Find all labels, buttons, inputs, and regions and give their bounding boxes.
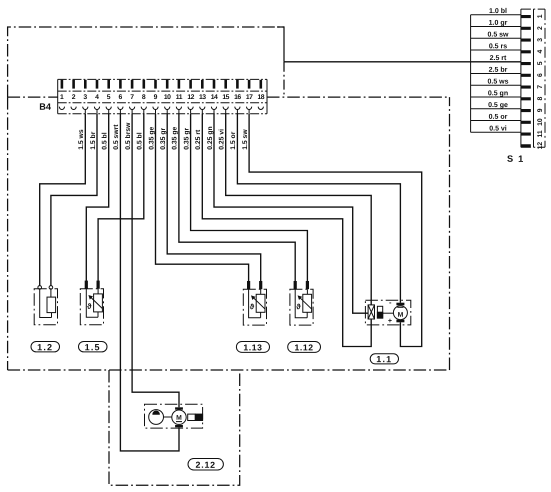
terminal S1:2	[521, 26, 544, 30]
svg-text:6: 6	[537, 73, 544, 77]
harness outer box (top)	[8, 27, 284, 97]
connector B4 pin 15 (contact, number, crimp fork)	[222, 80, 229, 114]
terminal S1:8	[521, 97, 544, 101]
wire 0.5 vi to S1:11	[471, 131, 521, 133]
designator oval 1.5	[79, 342, 108, 353]
terminal S1:7	[521, 85, 544, 89]
svg-text:0.5 vi: 0.5 vi	[489, 124, 507, 132]
wire 1.5 sw from B4 pin 17 to 1.1 motor	[249, 114, 422, 347]
terminal S1:3	[521, 38, 544, 42]
svg-text:2.5 br: 2.5 br	[489, 66, 508, 74]
svg-text:3: 3	[83, 94, 87, 101]
svg-text:1.5 or: 1.5 or	[230, 131, 237, 149]
lamp (indicator) in 1.1	[368, 305, 374, 319]
harness bottom box	[109, 370, 240, 485]
svg-text:1.13: 1.13	[243, 342, 262, 352]
wire 1.5 ws from B4 pin 3 to 1.2	[40, 114, 86, 286]
component 1.13 (temperature sensor)	[243, 281, 266, 325]
component 1.12 (temperature sensor)	[290, 281, 313, 325]
motor M in 2.12	[172, 407, 186, 427]
connector B4 pin 17 (contact, number, crimp fork)	[246, 80, 253, 114]
component 2.12 enclosure	[145, 404, 203, 428]
designator oval 1.13	[236, 342, 269, 353]
wire 0.5 brsw from B4 pin 7 to 2.12	[132, 114, 179, 408]
svg-text:0.5 gn: 0.5 gn	[488, 90, 508, 97]
svg-text:10: 10	[537, 118, 544, 126]
svg-text:1.2: 1.2	[37, 342, 53, 352]
terminal S1:5	[521, 61, 544, 65]
connector B4 pin 8 (contact, number, crimp fork)	[141, 80, 146, 114]
wire 0.25 gn from B4 pin 14 to 1.1 lamp	[214, 114, 368, 314]
plug contact bar in 1.1	[377, 306, 393, 318]
svg-text:0.5 brsw: 0.5 brsw	[125, 122, 132, 150]
svg-text:B4: B4	[39, 102, 52, 112]
svg-text:5: 5	[107, 94, 111, 101]
wire 0.5 or to S1:10	[471, 120, 521, 122]
svg-text:11: 11	[176, 94, 183, 101]
svg-text:2.12: 2.12	[196, 460, 216, 470]
svg-text:0.35 gr: 0.35 gr	[160, 128, 167, 150]
wire 1.0 gr to S1:2	[471, 26, 521, 28]
svg-text:0.25 gn: 0.25 gn	[207, 126, 214, 149]
connector B4 body	[58, 79, 267, 113]
connector B4 pin 2 (contact, number, crimp fork)	[71, 80, 76, 110]
component 1.2 (heater resistor)	[34, 286, 57, 325]
svg-text:16: 16	[234, 94, 241, 101]
svg-text:1.5 sw: 1.5 sw	[242, 129, 249, 150]
designator oval 1.2	[31, 342, 60, 353]
svg-text:9: 9	[537, 108, 544, 112]
terminal S1:10	[521, 118, 544, 126]
svg-text:ϑ: ϑ	[250, 302, 255, 311]
svg-text:ϑ: ϑ	[296, 302, 301, 311]
component 1.1 enclosure	[365, 300, 410, 325]
wire 0.35 ge from B4 pin 9 to 1.13	[156, 114, 249, 281]
terminal S1:1	[521, 14, 544, 18]
wire 0.25 rt from B4 pin 13 to 1.1 lamp	[202, 114, 371, 347]
svg-text:1.0 bl: 1.0 bl	[489, 7, 507, 15]
terminal S1:12	[521, 142, 544, 150]
svg-text:1.5 br: 1.5 br	[90, 131, 97, 149]
connector B4 pin 4 (contact, number, crimp fork)	[94, 80, 99, 114]
svg-text:0.5 rs: 0.5 rs	[489, 43, 507, 50]
svg-text:0.25 vi: 0.25 vi	[219, 129, 226, 150]
wire 0.5 swrt from B4 pin 6 to 2.12	[120, 114, 179, 451]
svg-text:0.5 swrt: 0.5 swrt	[113, 124, 120, 150]
svg-text:9: 9	[154, 94, 158, 101]
svg-text:13: 13	[199, 94, 206, 101]
harness main box	[8, 97, 450, 370]
connector B4 pin 11 (contact, number, crimp fork)	[176, 80, 183, 114]
svg-text:1.1: 1.1	[376, 354, 392, 364]
motor M in 1.1	[393, 303, 407, 323]
svg-text:2.5 rt: 2.5 rt	[490, 55, 507, 62]
connector B4 pin 13 (contact, number, crimp fork)	[199, 80, 206, 114]
terminal strip S1 body	[521, 9, 545, 147]
svg-text:0.5 ws: 0.5 ws	[487, 78, 508, 85]
svg-text:0.5 ge: 0.5 ge	[488, 102, 508, 109]
terminal S1:11	[521, 130, 544, 137]
svg-text:0.35 gr: 0.35 gr	[183, 128, 190, 150]
pump symbol in 2.12	[149, 410, 172, 425]
wire 0.35 gr from B4 pin 10 to 1.13	[167, 114, 261, 281]
svg-text:6: 6	[119, 94, 123, 101]
svg-text:15: 15	[222, 94, 229, 101]
connector B4 pin 18 (contact, number, crimp fork)	[258, 80, 265, 110]
wire 0.5 ge to S1:9	[471, 108, 521, 110]
designator oval 1.1	[370, 354, 398, 364]
wire 0.35 ge from B4 pin 11 to 1.12	[179, 114, 295, 281]
connector B4 pin 1 (contact, number, crimp fork)	[59, 80, 64, 110]
connector B4 pin 7 (contact, number, crimp fork)	[130, 80, 135, 114]
svg-text:-: -	[389, 298, 392, 307]
wire 1.0 bl to S1:1	[471, 14, 521, 16]
terminal S1:6	[521, 73, 544, 77]
wire 2.5 br to S1:6	[471, 73, 521, 75]
svg-text:0.5 or: 0.5 or	[489, 114, 508, 121]
svg-text:17: 17	[246, 94, 253, 101]
wire 0.25 vi from B4 pin 15 to 1.1 lamp	[226, 114, 372, 305]
svg-text:0.5 sw: 0.5 sw	[487, 31, 509, 38]
wire 0.5 ws to S1:7	[471, 84, 521, 86]
svg-text:3: 3	[537, 38, 544, 42]
svg-text:M: M	[176, 415, 182, 422]
svg-text:0.5 bl: 0.5 bl	[137, 132, 144, 149]
svg-text:4: 4	[537, 50, 544, 54]
svg-text:S 1: S 1	[507, 154, 524, 164]
wire 1.5 or from B4 pin 16 to 1.1 motor	[237, 114, 400, 303]
connector B4 pin 3 (contact, number, crimp fork)	[83, 80, 88, 114]
polarity marks for motor 1.1	[388, 298, 392, 325]
svg-text:1.5: 1.5	[85, 342, 101, 352]
connector B4 pin 9 (contact, number, crimp fork)	[153, 80, 158, 114]
wire 0.5 gn to S1:8	[471, 96, 521, 98]
designator oval 2.12	[188, 459, 223, 471]
svg-text:2: 2	[537, 26, 544, 30]
svg-text:7: 7	[537, 85, 544, 89]
svg-text:ϑ: ϑ	[87, 302, 92, 311]
svg-text:7: 7	[130, 94, 134, 101]
svg-text:11: 11	[537, 130, 544, 137]
svg-text:8: 8	[142, 94, 146, 101]
wire 0.5 bl from B4 pin 8 to 1.5	[98, 114, 144, 281]
designator oval 1.12	[288, 342, 321, 353]
svg-text:1: 1	[60, 94, 64, 101]
svg-text:M: M	[398, 312, 404, 319]
svg-text:12: 12	[537, 142, 544, 150]
wire 0.5 sw to S1:3	[471, 37, 521, 39]
terminal S1:9	[521, 108, 544, 112]
svg-text:0.35 ge: 0.35 ge	[148, 127, 155, 150]
terminal S1:4	[521, 50, 544, 54]
svg-text:0.5 bl: 0.5 bl	[102, 132, 109, 149]
svg-text:18: 18	[258, 94, 265, 101]
svg-text:2: 2	[72, 94, 76, 101]
svg-text:5: 5	[537, 61, 544, 65]
svg-text:+: +	[388, 318, 392, 325]
cable bus for S1 wires	[470, 15, 472, 133]
wire 0.35 gr from B4 pin 12 to 1.12	[191, 114, 308, 281]
svg-text:14: 14	[211, 94, 218, 101]
connector B4 pin 6 (contact, number, crimp fork)	[118, 80, 123, 114]
wire 1.5 br from B4 pin 4 to 1.2	[51, 114, 97, 286]
connector B4 pin 12 (contact, number, crimp fork)	[187, 80, 194, 114]
connector B4 pin 16 (contact, number, crimp fork)	[234, 80, 241, 114]
svg-text:1.12: 1.12	[295, 342, 314, 352]
plug contact bar in 2.12	[188, 414, 203, 420]
svg-text:4: 4	[95, 94, 99, 101]
connector B4 pin 10 (contact, number, crimp fork)	[164, 80, 171, 114]
wire 0.5 rs to S1:4	[471, 49, 521, 51]
svg-text:0.35 ge: 0.35 ge	[172, 127, 179, 150]
wire 0.5 bl from B4 pin 5 to 1.5	[86, 114, 108, 281]
svg-text:10: 10	[164, 94, 171, 101]
connector B4 pin 14 (contact, number, crimp fork)	[211, 80, 218, 114]
svg-text:1.0 gr: 1.0 gr	[489, 20, 508, 27]
svg-text:1: 1	[537, 14, 544, 18]
connector B4 pin 5 (contact, number, crimp fork)	[106, 80, 111, 114]
wire 2.5 rt from harness to terminal S1:5	[284, 61, 521, 63]
svg-text:12: 12	[187, 94, 194, 101]
svg-text:8: 8	[537, 97, 544, 101]
component 1.5 (temperature sensor)	[80, 281, 103, 325]
svg-text:1.5 ws: 1.5 ws	[78, 129, 85, 150]
svg-text:0.25 rt: 0.25 rt	[195, 129, 202, 150]
